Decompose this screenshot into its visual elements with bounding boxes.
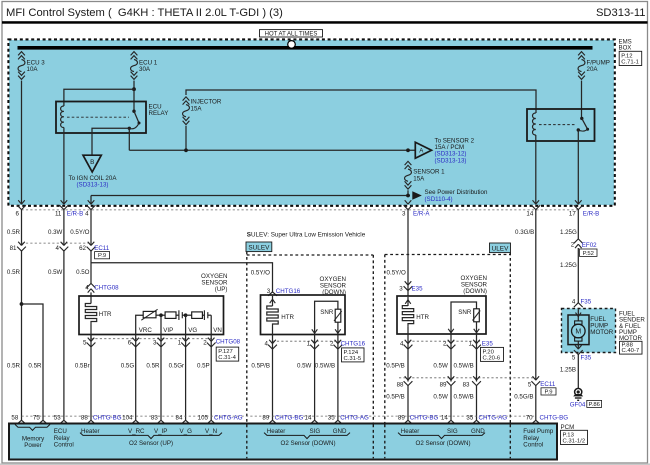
svg-text:4: 4 xyxy=(400,340,404,347)
sensor element SNR (ULEV) xyxy=(448,302,480,334)
svg-text:RELAY: RELAY xyxy=(149,110,169,117)
svg-text:3: 3 xyxy=(399,285,403,292)
connector row EC11 lower dashed link xyxy=(399,377,536,379)
wire 1.25G pin17 down xyxy=(560,210,578,239)
svg-text:V_IP: V_IP xyxy=(154,428,167,435)
svg-text:1: 1 xyxy=(307,340,311,347)
connector PCM pin 83 xyxy=(151,415,166,424)
svg-text:CHTG16: CHTG16 xyxy=(276,288,301,295)
wire pin6 to EC11-81 xyxy=(21,210,23,246)
svg-text:0.5R: 0.5R xyxy=(28,362,42,369)
svg-text:1.25B: 1.25B xyxy=(560,367,576,374)
svg-text:F35: F35 xyxy=(581,298,592,305)
svg-text:VIP: VIP xyxy=(163,327,173,334)
svg-text:P.9: P.9 xyxy=(98,253,106,259)
wire power dist to pin 4 xyxy=(90,196,92,205)
connector PCM pin 89 xyxy=(398,415,413,424)
PCM box xyxy=(9,424,557,460)
header rule xyxy=(2,21,648,24)
wire F/PUMP fuse to relay switch xyxy=(581,81,583,119)
svg-text:88: 88 xyxy=(397,381,404,388)
svg-text:F35: F35 xyxy=(581,354,592,361)
connector PCM pin 58 xyxy=(11,415,26,424)
svg-text:Control: Control xyxy=(54,442,74,449)
junction injector xyxy=(184,148,188,152)
svg-text:VG: VG xyxy=(188,327,197,334)
svg-text:0.5W: 0.5W xyxy=(48,269,63,276)
svg-text:4: 4 xyxy=(265,340,269,347)
svg-text:O2 Sensor (UP): O2 Sensor (UP) xyxy=(129,440,173,447)
label To IGN COIL 20A (SD313-13) xyxy=(69,175,118,189)
svg-text:HOT AT ALL TIMES: HOT AT ALL TIMES xyxy=(265,32,318,38)
svg-text:CHTG16: CHTG16 xyxy=(341,340,366,347)
svg-text:20A: 20A xyxy=(587,66,599,73)
wire relay output to injector line xyxy=(128,128,130,150)
ECU RELAY label xyxy=(149,103,169,117)
connector PCM pin 14 xyxy=(441,415,456,424)
svg-text:1: 1 xyxy=(469,340,473,347)
svg-text:89: 89 xyxy=(262,415,269,422)
svg-text:62: 62 xyxy=(79,245,86,252)
connector row EC11 dashed link xyxy=(22,242,92,244)
svg-text:Power: Power xyxy=(24,442,42,449)
connector E/R-B pin 14 xyxy=(526,200,540,217)
svg-text:P.86: P.86 xyxy=(589,402,601,408)
connector E/R-B pin 17 xyxy=(569,200,599,217)
label To SENSOR 2 15A / PCM xyxy=(435,137,475,164)
svg-text:15A: 15A xyxy=(191,105,203,112)
svg-text:C.31-5: C.31-5 xyxy=(344,356,362,362)
wire 1.25B to ground xyxy=(560,355,578,389)
svg-text:14: 14 xyxy=(441,415,448,422)
svg-text:SIG: SIG xyxy=(447,428,458,435)
connector PCM pin 35 xyxy=(466,415,481,424)
svg-text:Heater: Heater xyxy=(81,428,100,435)
svg-text:2: 2 xyxy=(330,340,334,347)
svg-text:C.20-6: C.20-6 xyxy=(483,355,501,361)
svg-text:3: 3 xyxy=(402,210,406,217)
svg-text:(SD313-13): (SD313-13) xyxy=(435,157,467,164)
svg-text:ULEV: ULEV xyxy=(492,245,509,252)
svg-text:0.5O: 0.5O xyxy=(76,269,90,276)
connector row dashed link E/R xyxy=(22,209,579,211)
wire 0.5G/B to PCM 70 xyxy=(514,386,536,421)
EMS BOX (dashed enclosure) xyxy=(8,39,614,205)
svg-text:81: 81 xyxy=(10,245,17,252)
wire relay output bus y150 xyxy=(129,149,415,151)
connector E35 pin 4 xyxy=(400,340,412,349)
label OXYGEN SENSOR (DOWN) SULEV xyxy=(320,276,347,296)
connector PCM pin 35 xyxy=(328,415,343,424)
connector E35 lower dashed link xyxy=(408,340,480,342)
oxygen sensor (DOWN) SULEV box xyxy=(261,295,346,335)
connector CHTG08 pin 4 xyxy=(85,283,119,292)
wire 0.5W to PCM 14 xyxy=(297,335,315,421)
svg-text:0.3G/B: 0.3G/B xyxy=(515,229,534,236)
svg-text:HTR: HTR xyxy=(416,314,429,321)
svg-text:SNR: SNR xyxy=(458,309,472,316)
wire 0.5W upper ULEV xyxy=(433,334,451,382)
connector CHTG08 lower dashed link xyxy=(91,338,214,340)
svg-text:1: 1 xyxy=(178,339,182,346)
svg-text:V_RC: V_RC xyxy=(128,428,145,435)
wire EC11-62 down to sensor CHTG08-4 xyxy=(90,250,92,283)
svg-text:GND: GND xyxy=(333,428,347,435)
label FUEL SENDER & FUEL PUMP MOTOR xyxy=(619,310,645,342)
svg-text:2: 2 xyxy=(571,241,575,248)
svg-text:10A: 10A xyxy=(27,66,39,73)
wire 0.5R to PCM 83 xyxy=(146,335,161,421)
wire branch to PCM 75 xyxy=(22,304,44,420)
svg-text:0.5Y/O: 0.5Y/O xyxy=(251,270,270,277)
connector CHTG08 pin 1 xyxy=(178,338,190,347)
wire 0.5G to PCM 104 xyxy=(121,335,136,421)
svg-text:P.12: P.12 xyxy=(621,53,632,59)
label PCM P.13 C.31-1/2 xyxy=(561,424,588,444)
connector EC11 pin 62 xyxy=(79,242,95,252)
svg-text:CHTG-BG: CHTG-BG xyxy=(93,415,122,422)
svg-text:70: 70 xyxy=(526,415,533,422)
svg-text:15A: 15A xyxy=(413,175,425,182)
connector EF02 pin 2 xyxy=(571,239,583,249)
svg-text:6: 6 xyxy=(16,210,20,217)
wire sensor1 fuse to power dist line xyxy=(407,190,409,195)
wire 0.5Br to PCM 88 xyxy=(75,335,91,421)
svg-text:BOX: BOX xyxy=(619,45,632,52)
oxygen sensor (DOWN) ULEV box xyxy=(397,296,486,334)
wire fuel pump relay switch to pin 17 xyxy=(577,130,579,204)
svg-text:E/R-B: E/R-B xyxy=(583,210,600,217)
connector CHTG08 pin 6 xyxy=(128,338,140,347)
wire injector line xyxy=(185,126,187,151)
svg-text:58: 58 xyxy=(11,415,18,422)
svg-text:CHTG-AG: CHTG-AG xyxy=(479,415,508,422)
svg-text:0.5P/B: 0.5P/B xyxy=(386,393,405,400)
off-page triangle B to IGN COIL xyxy=(83,155,101,172)
wire 0.5P/B lower ULEV to PCM 89 xyxy=(386,386,408,421)
svg-text:C.31-1/2: C.31-1/2 xyxy=(563,438,586,444)
wire injector fuse top to fuel pump relay coil feed xyxy=(186,90,536,113)
wire 0.5P/B upper ULEV xyxy=(386,334,408,382)
FUEL SENDER dashed enclosure xyxy=(562,309,616,353)
label CHTG08 P.127 C.31-4 xyxy=(216,339,241,362)
fuse ECU 1 30A xyxy=(131,52,158,80)
svg-text:0.5R: 0.5R xyxy=(146,362,160,369)
ULEV dashed region xyxy=(385,253,511,459)
connector PCM pin 88 xyxy=(81,415,96,424)
wire 0.5R fuse ECU3 to pin 6 xyxy=(21,81,23,205)
heater element HTR (DOWN SULEV) xyxy=(267,296,295,335)
wire E/R-A 3 down to E35-3 xyxy=(407,210,409,297)
junction memory power branch xyxy=(20,302,24,306)
connector EC11 pin 81 xyxy=(10,242,26,252)
wire 0.5Gr to PCM 84 xyxy=(169,335,186,421)
svg-text:(SD313-13): (SD313-13) xyxy=(77,182,109,189)
svg-text:E35: E35 xyxy=(482,340,494,347)
svg-text:75: 75 xyxy=(33,415,40,422)
wire 0.3G/B pin14 down xyxy=(515,210,536,381)
wire HTR to pin 5 xyxy=(90,325,92,342)
svg-text:104: 104 xyxy=(122,415,133,422)
svg-text:SULEV: Super Ultra Low Emissio: SULEV: Super Ultra Low Emission Vehicle xyxy=(247,231,366,238)
HOT AT ALL TIMES label xyxy=(260,30,323,38)
svg-text:1.25G: 1.25G xyxy=(560,262,577,269)
connector PCM pin 89 xyxy=(262,415,277,424)
svg-text:SIG: SIG xyxy=(310,428,321,435)
svg-text:4: 4 xyxy=(55,245,59,252)
svg-text:E35: E35 xyxy=(412,285,424,292)
connector E35 pin 1 xyxy=(469,340,481,349)
svg-text:CHTG-BG: CHTG-BG xyxy=(540,415,569,422)
labels VRC VIP VG VN xyxy=(139,327,222,334)
fuse ECU 3 10A xyxy=(18,52,45,80)
label FUEL PUMP MOTOR xyxy=(590,316,613,336)
ULEV badge xyxy=(490,243,511,253)
wire EC11-4 down to PCM 53 xyxy=(63,250,65,420)
svg-text:HTR: HTR xyxy=(99,311,112,318)
label E35 P.20 C.20-6 xyxy=(481,340,504,361)
wire relay coil to pin 11 xyxy=(63,128,65,205)
svg-text:VRC: VRC xyxy=(139,327,153,334)
svg-text:SNR: SNR xyxy=(320,309,334,316)
connector E/R-A pin 3 xyxy=(402,200,430,217)
fuse SENSOR 1 15A xyxy=(405,161,446,189)
svg-text:83: 83 xyxy=(151,415,158,422)
connector PCM pin 104 xyxy=(122,415,140,424)
svg-text:0.5Gr: 0.5Gr xyxy=(169,362,184,369)
svg-text:2: 2 xyxy=(203,339,207,346)
wire relay output to triangle B xyxy=(92,128,129,155)
svg-text:0.5R: 0.5R xyxy=(7,269,21,276)
svg-text:3: 3 xyxy=(153,339,157,346)
svg-text:C.40-7: C.40-7 xyxy=(622,348,640,354)
svg-text:(DOWN): (DOWN) xyxy=(463,288,487,295)
label See Power Distribution (SD110-4) xyxy=(425,189,488,203)
svg-text:B: B xyxy=(90,159,94,166)
svg-text:Heater: Heater xyxy=(401,428,420,435)
svg-text:P.52: P.52 xyxy=(583,251,594,257)
svg-text:0.5R: 0.5R xyxy=(7,362,21,369)
junction sensor fuse feed xyxy=(406,148,410,152)
connector EC11 pin 5 xyxy=(528,376,540,388)
wire 0.5W/B lower ULEV to PCM 35 xyxy=(454,386,477,421)
PCM pin function labels xyxy=(15,424,554,449)
fuse INJECTOR 15A xyxy=(183,97,222,125)
svg-text:SD313-11: SD313-11 xyxy=(596,7,646,19)
svg-text:EC11: EC11 xyxy=(94,245,110,252)
svg-text:CHTG08: CHTG08 xyxy=(216,339,241,346)
svg-text:5: 5 xyxy=(572,354,576,361)
connector PCM pin 105 xyxy=(198,415,216,424)
svg-text:0.5W: 0.5W xyxy=(297,362,312,369)
connector EC11 pin 88 xyxy=(397,376,413,388)
sensor element SNR (SULEV) xyxy=(312,301,342,334)
wire 0.5P/B to PCM 89 xyxy=(251,335,272,421)
svg-text:C.31-4: C.31-4 xyxy=(218,355,236,361)
svg-text:1.25G: 1.25G xyxy=(560,229,577,236)
svg-text:CHTG-BG: CHTG-BG xyxy=(275,415,304,422)
connector PCM pin 14 xyxy=(305,415,320,424)
connector E/R-B pin 11 xyxy=(55,200,68,217)
svg-text:(UP): (UP) xyxy=(215,286,228,293)
SULEV dashed region xyxy=(247,252,373,459)
label OXYGEN SENSOR (UP) xyxy=(201,273,228,293)
svg-text:6: 6 xyxy=(128,339,132,346)
svg-text:0.5Y/O: 0.5Y/O xyxy=(70,229,89,236)
motor M1 fuel pump xyxy=(568,309,589,349)
label P.88 C.40-7 xyxy=(620,341,643,354)
svg-text:Control: Control xyxy=(523,442,543,449)
oxygen sensor (UP) box xyxy=(79,296,224,335)
svg-text:0.5P: 0.5P xyxy=(197,362,210,369)
connector CHTG16 pin 4 xyxy=(265,340,277,349)
connector PCM pin 84 xyxy=(176,415,191,424)
svg-text:84: 84 xyxy=(176,415,183,422)
svg-text:4: 4 xyxy=(572,298,576,305)
svg-text:M: M xyxy=(575,329,581,336)
wire pin11 to EC11-4 xyxy=(63,210,65,246)
SULEV badge xyxy=(246,242,272,252)
svg-text:3: 3 xyxy=(267,288,271,295)
svg-text:0.5G: 0.5G xyxy=(121,362,135,369)
label GF04 P.86 xyxy=(570,400,602,408)
svg-text:CHTG-BG: CHTG-BG xyxy=(410,415,439,422)
svg-text:0.5W: 0.5W xyxy=(433,362,448,369)
svg-text:53: 53 xyxy=(54,415,61,422)
svg-text:0.5P/B: 0.5P/B xyxy=(386,362,405,369)
connector E/R-B pin 4 xyxy=(67,200,96,217)
svg-text:MOTOR: MOTOR xyxy=(590,329,613,336)
svg-text:C.71-1: C.71-1 xyxy=(621,59,639,65)
svg-text:11: 11 xyxy=(55,210,62,217)
PCM connector row dashed link xyxy=(22,415,536,417)
wire 0.5W lower ULEV to PCM 14 xyxy=(433,386,451,421)
label CHTG16 P.124 C.31-5 xyxy=(341,340,366,362)
wire fuel pump relay coil to pin 14 xyxy=(535,135,537,204)
wire 0.5P to PCM 105 xyxy=(197,335,211,421)
wire 0.5W/B upper ULEV xyxy=(454,334,477,382)
svg-text:E/R-A: E/R-A xyxy=(413,210,430,217)
connector E/R-B pin 6 xyxy=(16,200,26,217)
svg-text:17: 17 xyxy=(569,210,576,217)
svg-text:4: 4 xyxy=(85,210,89,217)
svg-text:O2 Sensor (DOWN): O2 Sensor (DOWN) xyxy=(281,440,336,447)
svg-text:83: 83 xyxy=(463,381,470,388)
wire EC11-81 down to PCM 58 xyxy=(21,250,23,420)
svg-text:0.5W: 0.5W xyxy=(433,393,448,400)
svg-text:14: 14 xyxy=(305,415,312,422)
off-page triangle A to SENSOR 2 / PCM xyxy=(415,142,431,158)
svg-text:35: 35 xyxy=(466,415,473,422)
heater element HTR (UP) xyxy=(85,304,112,325)
svg-text:CHTG-AG: CHTG-AG xyxy=(214,415,243,422)
svg-text:89: 89 xyxy=(398,415,405,422)
wire 0.5W/B to PCM 35 xyxy=(315,335,338,421)
svg-text:O2 Sensor (DOWN): O2 Sensor (DOWN) xyxy=(416,440,471,447)
junction node ECU1 feed xyxy=(132,87,136,91)
connector CHTG08 pin 3 xyxy=(153,338,165,347)
svg-text:P.9: P.9 xyxy=(544,389,552,395)
connector CHTG16 lower dashed link xyxy=(273,340,341,342)
svg-text:0.5W/B: 0.5W/B xyxy=(315,362,335,369)
relay ECU RELAY xyxy=(56,102,146,134)
svg-text:V_G: V_G xyxy=(180,428,193,435)
svg-text:88: 88 xyxy=(81,415,88,422)
svg-text:0.5Br: 0.5Br xyxy=(75,362,90,369)
connector PCM pin 75 xyxy=(33,415,48,424)
label EC11 P.9 xyxy=(94,245,110,259)
svg-text:E/R-B: E/R-B xyxy=(67,210,84,217)
svg-text:0.5W/B: 0.5W/B xyxy=(454,393,474,400)
svg-text:5: 5 xyxy=(528,381,532,388)
svg-text:P.13: P.13 xyxy=(563,432,575,438)
svg-text:Heater: Heater xyxy=(267,428,286,435)
svg-text:0.5W/B: 0.5W/B xyxy=(454,362,474,369)
wire branch to SULEV sensor CHTG16-3 xyxy=(91,263,273,292)
EMS BOX label xyxy=(619,38,632,51)
EMS BOX connector ref P.12 C.71-1 xyxy=(619,51,642,65)
connector EC11 pin 83 xyxy=(463,376,481,388)
heater element HTR (DOWN ULEV) xyxy=(402,297,429,335)
svg-text:2: 2 xyxy=(443,340,447,347)
bus tap node xyxy=(288,41,296,49)
svg-text:0.5Y/O: 0.5Y/O xyxy=(387,270,406,277)
arrow See Power Distribution xyxy=(412,191,422,200)
relay FUEL PUMP RELAY xyxy=(527,109,595,141)
svg-text:105: 105 xyxy=(198,415,209,422)
svg-text:5: 5 xyxy=(83,339,87,346)
connector EC11 pin 4 xyxy=(55,242,68,252)
connector CHTG16 pin 2 xyxy=(330,340,342,349)
connector CHTG08 pin 5 xyxy=(83,338,95,347)
svg-text:MFI Control System ( G4KH : T: MFI Control System ( G4KH : THETA II 2.0… xyxy=(6,7,283,19)
power bus HOT AT ALL TIMES xyxy=(18,46,593,50)
wire 1.25G EF02 to F35-4 xyxy=(560,248,578,303)
junction power dist xyxy=(406,194,410,198)
connector E35 pin 2 xyxy=(443,340,455,349)
connector CHTG08 pin 2 xyxy=(203,338,215,347)
connector F35 pin 5 xyxy=(572,345,592,361)
sensor cell network (UP) xyxy=(136,309,212,334)
connector E35 pin 3 xyxy=(399,281,423,292)
connector PCM pin 70 xyxy=(526,415,541,424)
svg-text:0.5G/B: 0.5G/B xyxy=(514,393,533,400)
label EC11 P.9 lower xyxy=(540,381,556,395)
svg-text:4: 4 xyxy=(85,285,89,292)
svg-text:(SD110-4): (SD110-4) xyxy=(425,196,453,203)
wire power distribution line y195 xyxy=(91,195,410,197)
svg-text:SULEV: SULEV xyxy=(248,244,270,251)
label EF02 P.52 xyxy=(580,242,598,257)
connector F35 pin 4 xyxy=(572,298,592,312)
svg-text:EC11: EC11 xyxy=(540,381,556,388)
svg-text:35: 35 xyxy=(328,415,335,422)
svg-text:0.5P/B: 0.5P/B xyxy=(251,362,270,369)
SULEV/ULEV region dashes through PCM xyxy=(247,425,511,459)
wire ECU1 to relay coil xyxy=(64,89,134,106)
connector EC11 pin 89 xyxy=(440,376,456,388)
ground GF04 xyxy=(573,388,583,400)
svg-text:CHTG08: CHTG08 xyxy=(94,285,119,292)
svg-text:30A: 30A xyxy=(139,66,151,73)
label OXYGEN SENSOR (DOWN) ULEV xyxy=(461,275,488,295)
svg-text:EF02: EF02 xyxy=(582,242,597,249)
wire pin4 to EC11-62 xyxy=(90,210,92,246)
svg-text:0.5R: 0.5R xyxy=(7,229,21,236)
wire CHTG08-4 to sensor xyxy=(90,292,92,303)
svg-text:14: 14 xyxy=(526,210,533,217)
wire ECU1 to relay switch xyxy=(133,89,135,111)
